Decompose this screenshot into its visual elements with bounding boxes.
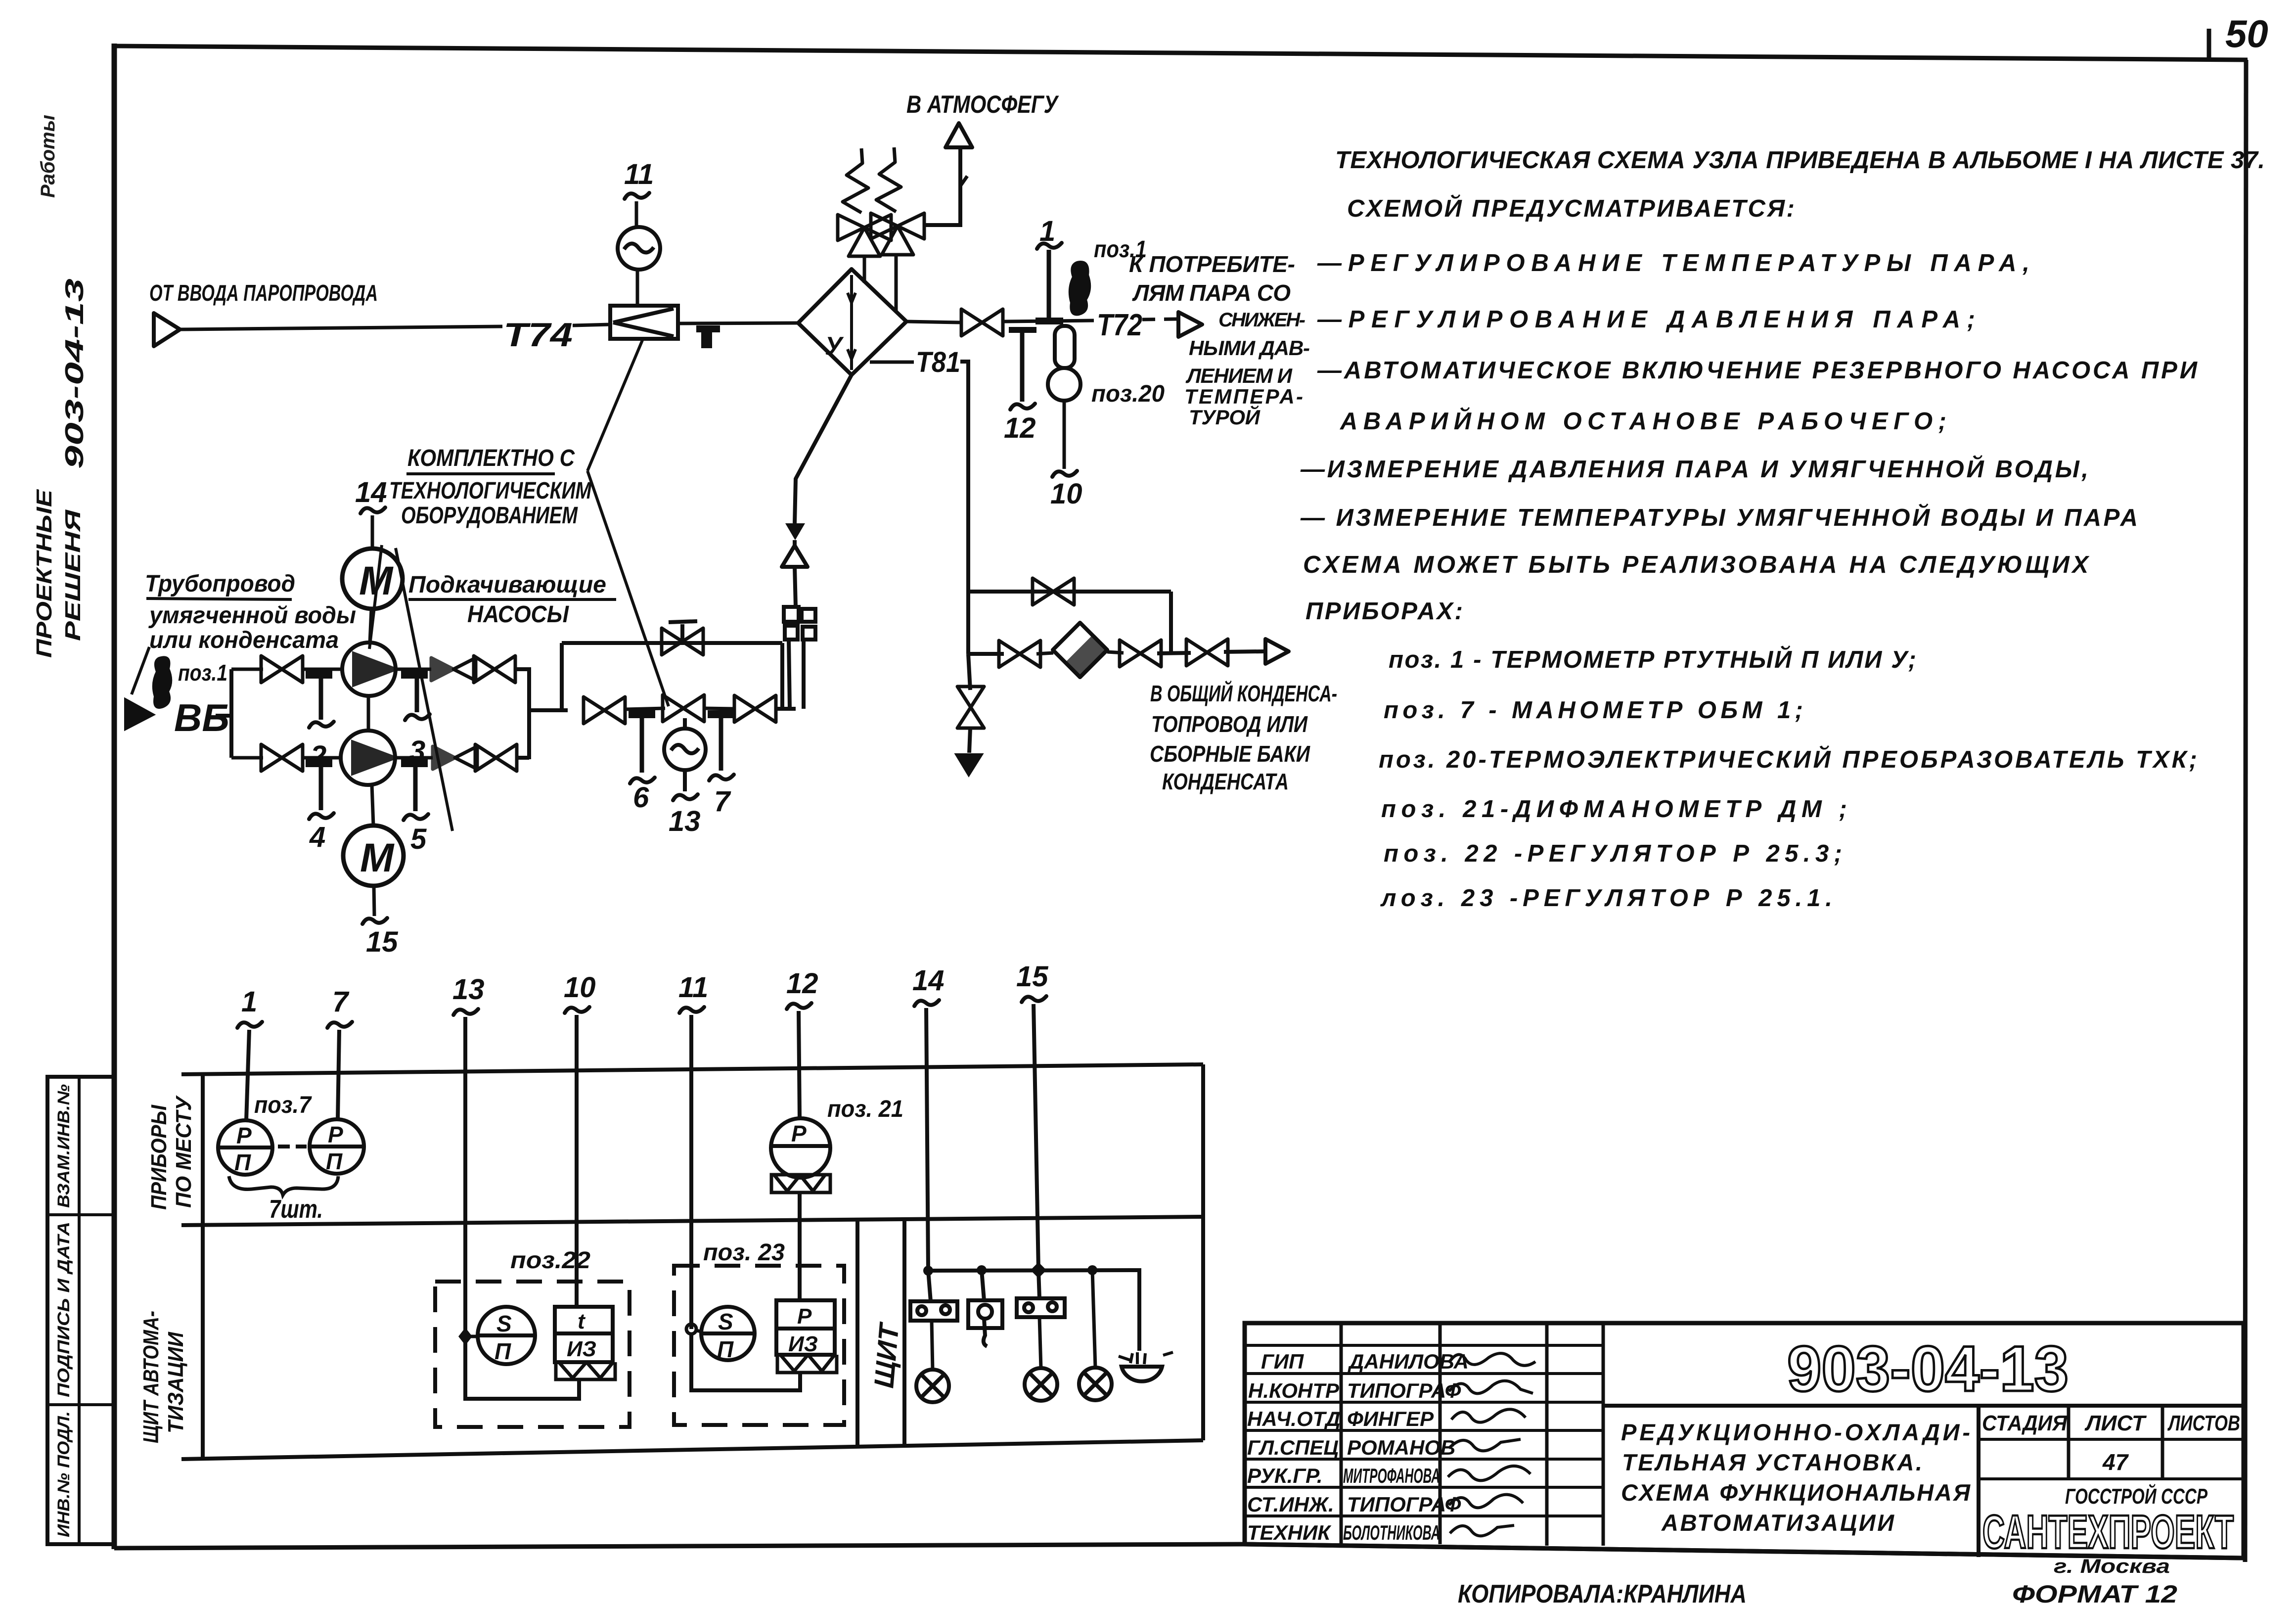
svg-text:ТИЗАЦИИ: ТИЗАЦИИ: [164, 1331, 188, 1433]
squiggle 10: [565, 1007, 589, 1013]
bypass hand valve with stem: [662, 628, 703, 655]
leader from text to inlet arrow: [132, 647, 149, 694]
svg-text:М: М: [360, 835, 395, 880]
injector downpipe double wall: [789, 640, 804, 709]
feedback loop wire: [465, 1336, 579, 1399]
junction dot b: [1087, 1265, 1097, 1275]
safety valve 2 (angle, spring): [871, 147, 924, 255]
стадия/лист dividers: [2069, 1406, 2162, 1479]
flange tick stub 2: [306, 671, 332, 679]
regulating line valve C: [734, 695, 776, 722]
outlet gate valve on steam line: [961, 309, 1003, 336]
wire: below M2: [374, 886, 374, 916]
squiggle 13: [453, 1009, 478, 1015]
flange tick stub 4: [306, 759, 332, 767]
pump 1 (circle with triangle): [342, 642, 396, 696]
svg-text:ИНВ.№ ПОДЛ.: ИНВ.№ ПОДЛ.: [54, 1411, 73, 1537]
squiggle 7: [327, 1022, 352, 1028]
thermocouple поз.20 stem: [1055, 326, 1075, 368]
discharge valve pump 1: [474, 656, 515, 683]
pump 2 (circle with triangle): [341, 731, 395, 785]
role labels: [1247, 1350, 1341, 1544]
actuator zigzag: [777, 1355, 837, 1373]
svg-text:13: 13: [669, 805, 701, 837]
svg-text:ЛИСТОВ: ЛИСТОВ: [2167, 1411, 2240, 1435]
svg-text:П: П: [717, 1336, 734, 1362]
title row lines: [1245, 1345, 1603, 1516]
wire: stub 1 riser: [1047, 250, 1051, 318]
valve before strainer: [999, 641, 1040, 667]
thermometer pocket stub 1 base tick: [1035, 318, 1063, 324]
check valve pump 2 (hatched): [433, 746, 477, 769]
wire to S circle: [696, 1331, 701, 1331]
suction valve pump 1: [261, 656, 303, 683]
svg-text:НАЧ.ОТД: НАЧ.ОТД: [1247, 1407, 1341, 1430]
strainer (rotated square, dirt half): [1053, 623, 1107, 677]
svg-text:БОЛОТНИКОВА: БОЛОТНИКОВА: [1343, 1521, 1440, 1544]
wire: suction header vertical: [229, 669, 233, 758]
svg-text:t: t: [578, 1309, 586, 1333]
band line B: [181, 1217, 1203, 1225]
wire: pipe to reducer: [573, 324, 610, 325]
wire: [1036, 653, 1053, 654]
safety valve 1 (angle, spring): [838, 148, 891, 256]
page number tick: [2207, 29, 2211, 60]
wire: pipe reducer to mixer diamond: [678, 323, 798, 323]
label К ПОТРЕБИТЕЛЯМ...: [1129, 251, 1310, 429]
wire: discharge to regulator line: [529, 708, 568, 712]
junction dot a: [977, 1265, 987, 1275]
svg-text:ТЕХНОЛОГИЧЕСКИМ: ТЕХНОЛОГИЧЕСКИМ: [389, 478, 592, 504]
wire bus to switch 3: [1038, 1270, 1039, 1298]
wire 7 drop: [338, 1030, 339, 1119]
svg-text:ИЗ: ИЗ: [567, 1337, 596, 1361]
underline: [146, 598, 292, 599]
wire: [395, 756, 433, 760]
wire: [625, 708, 665, 709]
wire: safety valve discharge to atmosphere: [924, 148, 960, 225]
svg-text:г. Москва: г. Москва: [2054, 1556, 2170, 1577]
squiggle 1: [237, 1022, 262, 1028]
wire: stub 12 drop: [1020, 330, 1025, 402]
svg-text:РОМАНОВ: РОМАНОВ: [1347, 1436, 1455, 1459]
regulator S/П circle: [478, 1307, 535, 1364]
svg-text:РУК.ГР.: РУК.ГР.: [1247, 1464, 1323, 1487]
svg-text:ТОПРОВОД ИЛИ: ТОПРОВОД ИЛИ: [1151, 711, 1308, 737]
signal bus wire: [928, 1270, 1139, 1351]
svg-text:12: 12: [786, 967, 818, 1000]
consumer arrow head: [1178, 312, 1202, 337]
svg-text:ФОРМАТ 12: ФОРМАТ 12: [2012, 1580, 2177, 1606]
wire: bypass right drop: [1169, 592, 1173, 654]
arrow barb on atmosphere riser: [960, 176, 967, 186]
discharge valve pump 2: [475, 744, 517, 771]
svg-text:—РЕГУЛИРОВАНИЕ ДАВЛЕНИЯ ПАРА;: —РЕГУЛИРОВАНИЕ ДАВЛЕНИЯ ПАРА;: [1317, 306, 1975, 333]
ЩИТ column left line: [855, 1218, 859, 1445]
squiggle 11: [679, 1007, 704, 1013]
svg-text:13: 13: [452, 973, 485, 1006]
svg-text:МИТРОФАНОВА: МИТРОФАНОВА: [1343, 1464, 1440, 1487]
wire: [303, 756, 341, 760]
svg-text:РЕШЕНЯ: РЕШЕНЯ: [61, 509, 85, 641]
wire: pipe valve to consumers: [1004, 321, 1094, 321]
svg-text:В ОБЩИЙ КОНДЕНСА-: В ОБЩИЙ КОНДЕНСА-: [1150, 681, 1337, 706]
key operated switch box: [968, 1300, 1002, 1346]
svg-text:ГИП: ГИП: [1261, 1350, 1304, 1373]
wire: bypass drop right: [780, 643, 784, 709]
wire to injector: [776, 707, 796, 711]
svg-text:14: 14: [912, 964, 945, 997]
svg-text:ОБОРУДОВАНИЕМ: ОБОРУДОВАНИЕМ: [401, 503, 578, 529]
stub 12 tee bar: [1009, 327, 1036, 333]
wire: [1107, 652, 1124, 653]
svg-text:6: 6: [633, 781, 649, 814]
svg-text:14: 14: [355, 476, 387, 508]
inlet arrow (steam from plant inlet): [154, 313, 180, 346]
title col divider sig|blank: [1545, 1323, 1549, 1546]
injection flow arrow (filled): [785, 523, 805, 540]
svg-text:ВЗАМ.ИНВ.№: ВЗАМ.ИНВ.№: [54, 1084, 73, 1208]
squiggle 15: [1022, 996, 1046, 1002]
wire 11 drop: [689, 1015, 693, 1329]
wire to S circle: [465, 1335, 478, 1338]
underline: [406, 472, 555, 475]
svg-text:СНИЖЕН-: СНИЖЕН-: [1218, 309, 1306, 331]
frame left border: [112, 44, 117, 1549]
svg-text:1: 1: [1039, 215, 1055, 247]
junction dot 14: [923, 1266, 933, 1276]
поз.21 gauge circle: [771, 1118, 830, 1178]
injection check valve: [782, 540, 808, 567]
svg-text:СТ.ИНЖ.: СТ.ИНЖ.: [1247, 1493, 1334, 1516]
title col divider blank|main: [1602, 1323, 1605, 1546]
band right edge: [1201, 1064, 1205, 1440]
wire continue line 12 down: [798, 1193, 802, 1300]
junction dot on line 13: [458, 1328, 472, 1345]
svg-text:умягченной воды: умягченной воды: [148, 602, 356, 629]
svg-text:ТИПОГРАФ: ТИПОГРАФ: [1347, 1493, 1461, 1516]
wire: stub 3 drop: [415, 679, 419, 712]
drain arrow down (filled): [956, 754, 982, 776]
wire: condensate discharge line: [968, 652, 1004, 656]
suction valve pump 2: [261, 744, 303, 771]
squiggle 14: [914, 1000, 939, 1006]
feedback loop wire: [691, 1334, 800, 1390]
title block outer box: [1245, 1323, 2244, 1558]
wire: поз.20 lead down: [1063, 401, 1066, 469]
svg-text:7: 7: [332, 986, 350, 1018]
svg-text:5: 5: [410, 823, 427, 855]
svg-text:К ПОТРЕБИТЕ-: К ПОТРЕБИТЕ-: [1129, 251, 1295, 277]
svg-text:Работы: Работы: [37, 115, 59, 198]
squiggle terminal 2: [309, 722, 334, 728]
leader diag crossing: [396, 548, 452, 831]
gauge circle 1 (P/П): [218, 1120, 272, 1175]
title col divider role|name: [1340, 1323, 1343, 1544]
band left divider: [201, 1074, 205, 1459]
check valve pump 1 (hatched): [431, 658, 476, 681]
injector flanges: [784, 607, 815, 709]
wire switch3 to lamp 2: [1039, 1317, 1041, 1369]
squiggle terminal 6: [630, 778, 655, 783]
drain vertical valve: [957, 687, 984, 728]
svg-text:10: 10: [564, 971, 596, 1004]
leader to reducer: [587, 340, 642, 471]
squiggle 12: [787, 1003, 811, 1009]
wire: pipe diamond to outlet valve: [906, 321, 960, 322]
svg-text:ПРОЕКТНЫЕ: ПРОЕКТНЫЕ: [32, 489, 56, 658]
diamond center spray line: [850, 275, 853, 370]
wire 12 drop: [799, 1011, 800, 1118]
dash between gauges: [278, 1145, 307, 1148]
title col divider name|sig: [1439, 1323, 1442, 1544]
safety valve 1 riser: [863, 256, 866, 283]
junction diamond 15: [1033, 1264, 1044, 1276]
wire: stub 14 above M1: [371, 515, 374, 549]
wire: [303, 668, 342, 671]
svg-text:ГЛ.СПЕЦ: ГЛ.СПЕЦ: [1247, 1436, 1339, 1459]
svg-text:47: 47: [2102, 1449, 2129, 1475]
svg-text:903-04-13: 903-04-13: [1787, 1332, 2069, 1405]
wire: [517, 756, 529, 760]
squiggle terminal 12: [1010, 404, 1035, 410]
underline: [408, 598, 616, 601]
dashed enclosure поз.22: [435, 1282, 630, 1427]
svg-text:поз.20: поз.20: [1091, 381, 1165, 407]
svg-text:ТУРОЙ: ТУРОЙ: [1189, 405, 1261, 429]
svg-text:Р: Р: [797, 1304, 812, 1329]
wire switch1 to lamp 1: [932, 1321, 933, 1370]
svg-text:СТАДИЯ: СТАДИЯ: [1982, 1411, 2068, 1435]
squiggle terminal 3: [405, 714, 430, 720]
brace 7 шт.: [229, 1176, 338, 1195]
dashed enclosure поз.23: [674, 1266, 844, 1425]
wire: stub above circle 11: [635, 201, 638, 227]
wire: stub 4 drop: [319, 767, 323, 810]
regulator S/П circle поз.23: [701, 1307, 755, 1360]
svg-text:П: П: [234, 1149, 251, 1175]
wire: pump2 to M2: [372, 785, 373, 826]
svg-text:САНТЕХПРОЕКТ: САНТЕХПРОЕКТ: [1982, 1506, 2234, 1559]
svg-text:поз. 23: поз. 23: [703, 1239, 785, 1266]
svg-text:—АВТОМАТИЧЕСКОЕ ВКЛЮЧЕНИЕ РЕЗЕ: —АВТОМАТИЧЕСКОЕ ВКЛЮЧЕНИЕ РЕЗЕРВНОГО НАС…: [1317, 357, 2198, 384]
motor M1: [342, 549, 403, 609]
wire: T81 to downcomer: [960, 362, 968, 654]
wire bus to switch 1: [928, 1271, 931, 1301]
leader bracket for Трубопровод: [148, 606, 168, 648]
project title lines: [1621, 1419, 1971, 1536]
wire: T81 branch from diamond: [870, 361, 914, 364]
svg-text:ЛИСТ: ЛИСТ: [2084, 1411, 2147, 1435]
left bottom stamp table: [47, 1077, 115, 1544]
svg-text:S: S: [718, 1309, 733, 1334]
squiggle terminal 13: [673, 794, 698, 800]
svg-text:11: 11: [624, 158, 654, 190]
svg-text:КОПИРОВАЛА:КРАНЛИНА: КОПИРОВАЛА:КРАНЛИНА: [1458, 1580, 1747, 1606]
wire: dashed to arrow: [1142, 319, 1177, 320]
svg-text:АВАРИЙНОМ ОСТАНОВЕ РАБОЧЕГО;: АВАРИЙНОМ ОСТАНОВЕ РАБОЧЕГО;: [1340, 408, 1946, 435]
svg-text:или конденсата: или конденсата: [149, 627, 339, 653]
svg-text:ЛЯМ ПАРА СО: ЛЯМ ПАРА СО: [1132, 280, 1291, 306]
wire: stub 7 drop: [719, 718, 723, 771]
svg-text:ТЕХНИК: ТЕХНИК: [1247, 1521, 1332, 1544]
svg-text:поз. 20-ТЕРМОЭЛЕКТРИЧЕСКИЙ ПРЕ: поз. 20-ТЕРМОЭЛЕКТРИЧЕСКИЙ ПРЕОБРАЗОВАТЕ…: [1379, 746, 2197, 773]
stamp table row lines: [47, 1215, 115, 1405]
svg-text:10: 10: [1050, 478, 1082, 510]
svg-text:П: П: [495, 1338, 511, 1364]
svg-text:ГОССТРОЙ СССР: ГОССТРОЙ СССР: [2065, 1483, 2207, 1509]
svg-text:Т81: Т81: [916, 346, 960, 378]
thermocouple поз.20 bulb: [1048, 368, 1080, 401]
actuator box Р/ИЗ: [776, 1300, 835, 1355]
svg-text:поз. 21: поз. 21: [827, 1096, 903, 1122]
svg-text:Р: Р: [236, 1123, 252, 1148]
instrument circle 11 (pressure pilot): [618, 227, 660, 270]
wire 14 drop: [926, 1008, 928, 1271]
signal lamp 3: [1079, 1368, 1112, 1400]
signatures scribbles: [1448, 1353, 1535, 1536]
softened water inlet arrow (filled): [125, 699, 154, 730]
svg-text:ТИПОГРАФ: ТИПОГРАФ: [1347, 1379, 1461, 1402]
band bottom line: [181, 1440, 1203, 1459]
alarm bell: [1119, 1352, 1173, 1381]
wire bus to lamp 3: [1092, 1270, 1095, 1368]
bypass valve stem tee: [669, 621, 697, 642]
svg-text:S: S: [496, 1311, 512, 1336]
svg-text:ПРИБОРЫ: ПРИБОРЫ: [147, 1104, 171, 1210]
svg-text:поз. 1 - ТЕРМОМЕТР РТУТНЫЙ П: поз. 1 - ТЕРМОМЕТР РТУТНЫЙ П ИЛИ У;: [1389, 646, 1916, 673]
actuator zigzag: [556, 1362, 615, 1379]
squiggle terminal 11: [625, 193, 649, 199]
svg-text:СХЕМА МОЖЕТ БЫТЬ РЕАЛИЗОВАНА: СХЕМА МОЖЕТ БЫТЬ РЕАЛИЗОВАНА НА СЛЕДУЮЩИ…: [1303, 551, 2090, 578]
svg-text:Трубопровод: Трубопровод: [145, 571, 295, 597]
valve after strainer: [1120, 640, 1161, 667]
svg-text:НЫМИ ДАВ-: НЫМИ ДАВ-: [1189, 336, 1310, 360]
squiggle terminal 7: [709, 775, 734, 780]
svg-text:поз.1: поз.1: [178, 660, 227, 686]
wire: drain drop: [968, 654, 970, 690]
regulating line valve A: [584, 697, 625, 724]
svg-text:50: 50: [2225, 12, 2268, 55]
svg-text:ПРИБОРАХ:: ПРИБОРАХ:: [1306, 598, 1463, 625]
wire: main steam pipe T74 segment: [180, 326, 502, 329]
leader diag M1: [369, 545, 382, 649]
svg-text:Р: Р: [791, 1121, 807, 1147]
wire: stub 2 drop: [319, 679, 323, 720]
flange tick stub 3: [401, 671, 428, 679]
wire: stub 6 drop: [640, 718, 644, 773]
svg-text:7: 7: [714, 785, 731, 818]
wire: suction lower branch: [231, 756, 263, 760]
svg-text:ЩИТ: ЩИТ: [868, 1320, 904, 1389]
wire: bypass top line: [562, 641, 782, 645]
svg-text:НАСОСЫ: НАСОСЫ: [467, 601, 569, 628]
wire: actuator stem from circle 11 to reducer: [636, 270, 639, 306]
switch contact box 1: [910, 1301, 957, 1321]
wire to junction: [1157, 653, 1191, 653]
pressure reducing valve (rectangle with triangle): [610, 306, 678, 339]
svg-text:15: 15: [1016, 961, 1048, 993]
regulating line valve B (pump control valve): [663, 695, 704, 722]
flange tick stub 7: [708, 710, 734, 718]
squiggle terminal 4: [309, 813, 334, 819]
svg-text:КОНДЕНСАТА: КОНДЕНСАТА: [1162, 769, 1289, 794]
wire: to gauge circle 13: [683, 718, 687, 729]
wire: suction upper branch: [231, 668, 263, 671]
mercury thermometer blob поз.1 on inlet: [153, 657, 171, 708]
~ inside circle 13: [671, 745, 699, 753]
safety valve 2 riser: [895, 255, 898, 313]
drain tick under pipe: [696, 325, 720, 332]
motor M2: [343, 826, 404, 886]
svg-text:ПОДПИСЬ И ДАТА: ПОДПИСЬ И ДАТА: [54, 1222, 73, 1397]
svg-text:СХЕМА ФУНКЦИОНАЛЬНАЯ: СХЕМА ФУНКЦИОНАЛЬНАЯ: [1621, 1479, 1971, 1506]
svg-text:12: 12: [1004, 412, 1036, 444]
squiggle terminal 1: [1037, 243, 1062, 249]
svg-text:903-04-13: 903-04-13: [60, 278, 89, 469]
squiggle terminal 10: [1052, 471, 1077, 477]
frame top border: [114, 46, 2248, 60]
wire: strainer bypass line: [968, 590, 1171, 594]
svg-text:поз.22: поз.22: [510, 1247, 590, 1274]
svg-text:СБОРНЫЕ БАКИ: СБОРНЫЕ БАКИ: [1150, 741, 1310, 767]
svg-text:11: 11: [678, 971, 708, 1004]
wire: from diamond bottom to injection column: [795, 375, 852, 523]
svg-text:поз.7: поз.7: [254, 1092, 312, 1118]
~ inside circle 11: [624, 243, 654, 252]
svg-text:П: П: [326, 1148, 343, 1174]
svg-text:1: 1: [241, 986, 257, 1018]
svg-text:ИЗ: ИЗ: [788, 1332, 818, 1356]
svg-text:ТЕХНОЛОГИЧЕСКАЯ СХЕМА УЗЛА ПРИ: ТЕХНОЛОГИЧЕСКАЯ СХЕМА УЗЛА ПРИВЕДЕНА В А…: [1335, 147, 2265, 174]
wire: inlet to header: [216, 714, 231, 718]
local gauge circle 13 (~): [664, 729, 706, 770]
svg-text:В АТМОСФЕГУ: В АТМОСФЕГУ: [906, 91, 1059, 118]
divider title | stamp area: [1977, 1406, 1981, 1557]
wire: [969, 728, 970, 753]
wire 15 drop: [1034, 1004, 1038, 1270]
actuator box t/ИЗ: [555, 1307, 613, 1362]
ЩИТ column right line: [902, 1217, 906, 1444]
wire: [795, 567, 796, 607]
svg-text:ТЕМПЕРА-: ТЕМПЕРА-: [1184, 385, 1303, 408]
wire: [396, 668, 431, 671]
поз.21 actuator zigzag box: [771, 1175, 830, 1193]
svg-text:РЕДУКЦИОННО-ОХЛАДИ-: РЕДУКЦИОННО-ОХЛАДИ-: [1621, 1419, 1970, 1445]
stamp table box: [47, 1077, 115, 1544]
svg-text:Н.КОНТР: Н.КОНТР: [1248, 1379, 1340, 1402]
main divider under doc number: [1603, 1404, 2244, 1408]
svg-text:Т72: Т72: [1097, 308, 1142, 342]
frame bottom border: [114, 1544, 2244, 1558]
svg-text:ПО МЕСТУ: ПО МЕСТУ: [172, 1095, 196, 1208]
wire: pump1 to pump2 shaft: [367, 696, 370, 731]
frame right border: [2245, 60, 2246, 1562]
wire 10 drop: [575, 1015, 579, 1307]
wire: [704, 708, 736, 709]
signal lamp 2: [1025, 1368, 1057, 1401]
squiggle terminal 5: [404, 814, 428, 820]
leader to pump control valve: [587, 471, 669, 706]
svg-text:ЩИТ АВТОМА-: ЩИТ АВТОМА-: [139, 1311, 163, 1443]
svg-text:15: 15: [366, 926, 398, 958]
discharge arrow head: [1265, 639, 1289, 664]
svg-text:4: 4: [309, 821, 325, 853]
svg-text:КОМПЛЕКТНО С: КОМПЛЕКТНО С: [407, 445, 575, 471]
wire: below circle 13: [683, 770, 687, 791]
discharge valve: [1186, 639, 1228, 666]
svg-text:—РЕГУЛИРОВАНИЕ ТЕМПЕРАТУРЫ П: —РЕГУЛИРОВАНИЕ ТЕМПЕРАТУРЫ ПАРА,: [1317, 250, 2029, 276]
